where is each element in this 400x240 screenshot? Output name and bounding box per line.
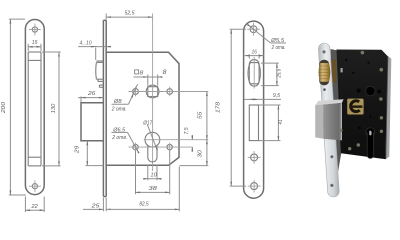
screw hole left [133,144,138,149]
lock case outline [106,52,179,165]
svg-text:2 отв.: 2 отв. [111,106,127,112]
dimension 2.5 faceplate thickness [83,198,111,212]
svg-text:25: 25 [90,203,100,209]
dimension 52.5 [106,10,152,19]
svg-text:130: 130 [51,103,57,113]
dimension square 8 [134,69,168,86]
dimension 55 [197,92,207,140]
photo gold label [347,99,363,115]
svg-text:2 отв.: 2 отв. [111,135,127,141]
dimension 7.5 [184,127,193,152]
photo deadbolt edge highlight [340,103,342,140]
handle fixing hole left [133,89,139,95]
svg-text:10: 10 [150,173,157,179]
dimension 130 [42,52,61,166]
svg-text:22: 22 [31,204,39,210]
svg-text:29: 29 [74,145,80,154]
centerline row3 horizontal [129,146,193,148]
dimension 4...10 roller protrusion [78,40,111,60]
photo deadbolt front face [323,103,342,140]
svg-text:15: 15 [32,40,38,46]
svg-text:55: 55 [197,111,203,119]
centerline row2 horizontal [144,139,209,141]
hole tick marks row1 [136,87,170,96]
svg-text:52,5: 52,5 [125,10,136,16]
callout dia17 cylinder [142,120,158,150]
svg-text:38: 38 [148,186,158,192]
svg-text:2 отв.: 2 отв. [271,45,286,51]
photo spindle hub hole [366,86,375,95]
centerline spindle vertical [152,14,154,172]
photo deadbolt top face [315,99,343,105]
photo lock inner side plate [331,49,342,191]
photo faceplate top screw [322,50,325,53]
dimension 82.5 [106,167,179,212]
photo small screw below roller [323,88,326,91]
photo case small dark marks [341,59,372,129]
svg-text:16: 16 [252,50,258,56]
svg-text:30: 30 [197,149,203,157]
roller cutout [249,60,259,87]
roller centerline [253,57,255,89]
hole tick marks row3 [136,143,170,152]
faceplate top screw hole [247,23,260,36]
dimension 29 [74,141,103,166]
photo faceplate lower screws [330,155,333,158]
cylinder profile stem [148,145,157,162]
svg-text:82,5: 82,5 [139,201,149,207]
dimension 9.5 [244,93,281,100]
dimension 41 [259,105,284,141]
photo roller recess [319,60,329,85]
svg-text:4...10: 4...10 [80,40,93,46]
photo case green screws [339,51,383,151]
callout dia8 2 holes [111,84,138,112]
dimension 26 [78,91,103,103]
svg-text:8: 8 [163,69,167,76]
strike plate bottom screw hole [29,180,41,192]
dimension 25.5 [261,63,282,86]
photo lock case [337,50,389,160]
faceplate outline [244,21,264,198]
photo gold label logo ring [351,101,360,112]
svg-text:7,5: 7,5 [184,127,190,135]
strike plate outline [25,20,44,195]
photo faceplate strip [324,49,333,191]
callout dia6.5 2 holes [111,128,139,154]
latch slot [249,105,258,141]
dimension 200 [1,19,26,195]
dimension 16 [245,50,264,59]
photo small case holes [357,89,361,93]
dimension 15 [28,40,41,51]
spindle square hole [148,87,158,97]
handle fixing hole right [167,89,173,95]
roller barrel [248,63,260,84]
dimension 30 [180,140,209,166]
deadbolt [81,103,103,141]
screw hole right [167,144,172,149]
svg-text:178: 178 [216,101,222,113]
faceplate middle screw hole [248,151,261,164]
photo roller seen behind side plate [330,60,336,84]
photo roller ridges [319,66,329,79]
roller latch bump [96,61,104,87]
dimension 38 [136,151,170,195]
photo roller brass barrel [319,63,331,82]
svg-text:200: 200 [1,101,7,114]
photo case edge highlight [386,56,392,160]
faceplate bottom screw hole [248,180,261,193]
cylinder hole circle [145,132,160,147]
centerline row1 horizontal [129,91,209,93]
dimension 10 keyway [143,165,161,181]
strike plate inner raised plate [28,52,41,166]
dimension 22 [25,197,44,213]
photo gold label text band [350,105,362,108]
photo deadbolt left face [315,105,323,139]
strike plate top screw hole [29,24,41,36]
faceplate bar [103,20,106,196]
svg-text:9,5: 9,5 [273,93,281,99]
photo euro cylinder cutout [366,128,375,159]
callout dia5.5 2 holes [247,24,286,51]
spindle follower circle [146,85,159,98]
svg-text:25,5: 25,5 [276,68,282,78]
dimension 178 [216,29,246,186]
svg-text:41: 41 [278,119,284,124]
svg-text:26: 26 [87,91,96,97]
